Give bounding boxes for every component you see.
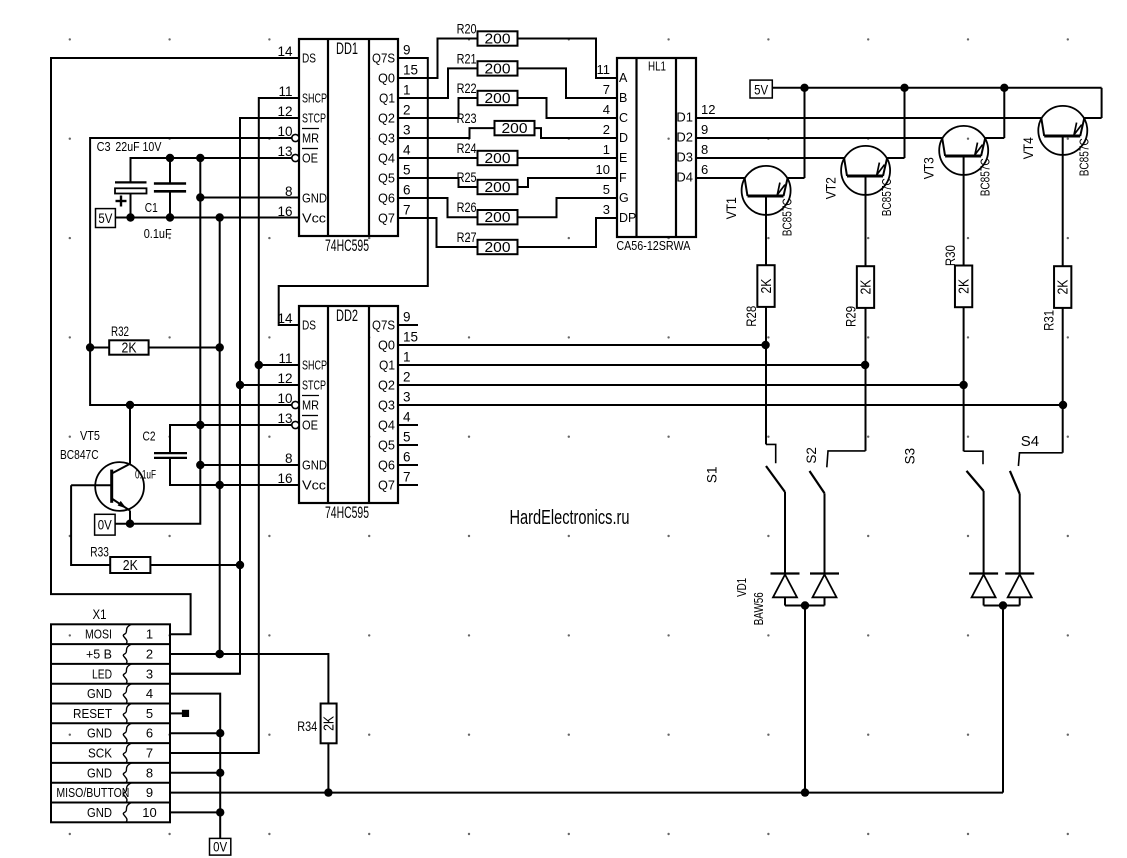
svg-text:8: 8 xyxy=(701,142,708,157)
svg-text:5: 5 xyxy=(603,182,610,197)
svg-text:S3: S3 xyxy=(902,448,917,465)
svg-text:1: 1 xyxy=(603,142,610,157)
svg-text:200: 200 xyxy=(485,210,511,226)
svg-text:SHCP: SHCP xyxy=(302,91,327,106)
svg-text:5V: 5V xyxy=(754,82,769,98)
svg-text:GND: GND xyxy=(87,765,112,780)
svg-text:MOSI: MOSI xyxy=(85,627,112,642)
svg-text:Q2: Q2 xyxy=(378,378,395,393)
svg-text:1: 1 xyxy=(403,83,411,98)
svg-text:BC857C: BC857C xyxy=(780,198,795,236)
svg-text:S1: S1 xyxy=(705,467,720,484)
svg-text:2K: 2K xyxy=(122,341,137,357)
svg-text:Q0: Q0 xyxy=(378,71,395,86)
svg-text:HL1: HL1 xyxy=(648,60,666,74)
svg-text:4: 4 xyxy=(603,102,610,117)
svg-text:DP: DP xyxy=(619,211,636,225)
svg-text:VT5: VT5 xyxy=(80,428,100,443)
svg-text:R25: R25 xyxy=(457,170,477,185)
svg-text:1: 1 xyxy=(403,350,411,365)
svg-text:CA56-12SRWA: CA56-12SRWA xyxy=(616,238,690,253)
svg-text:11: 11 xyxy=(278,351,292,366)
svg-text:D: D xyxy=(619,131,628,145)
svg-text:Q0: Q0 xyxy=(378,338,395,353)
svg-text:GND: GND xyxy=(302,458,327,473)
svg-text:DD2: DD2 xyxy=(336,307,358,325)
svg-text:74HC595: 74HC595 xyxy=(325,237,369,255)
svg-text:MISO/BUTTON: MISO/BUTTON xyxy=(56,786,129,800)
svg-text:200: 200 xyxy=(502,121,528,137)
svg-text:Q7S: Q7S xyxy=(372,318,395,333)
svg-text:A: A xyxy=(619,71,628,85)
svg-text:BAW56: BAW56 xyxy=(751,592,766,625)
svg-text:3: 3 xyxy=(403,390,411,405)
svg-text:12: 12 xyxy=(277,104,292,119)
svg-text:7: 7 xyxy=(603,82,610,97)
svg-text:R33: R33 xyxy=(90,545,109,560)
svg-text:5V: 5V xyxy=(98,210,113,226)
svg-text:SCK: SCK xyxy=(88,746,112,761)
svg-text:2: 2 xyxy=(603,122,610,137)
svg-text:2K: 2K xyxy=(859,279,875,294)
svg-text:R27: R27 xyxy=(457,230,477,245)
svg-text:OE: OE xyxy=(302,418,318,433)
svg-text:200: 200 xyxy=(485,32,511,48)
svg-text:6: 6 xyxy=(403,450,411,465)
svg-text:10: 10 xyxy=(142,805,156,820)
svg-text:DS: DS xyxy=(302,51,316,66)
svg-text:2K: 2K xyxy=(759,278,775,293)
svg-text:C2: C2 xyxy=(143,429,156,444)
svg-text:200: 200 xyxy=(485,61,511,77)
svg-text:BC857C: BC857C xyxy=(1076,138,1091,176)
svg-text:5: 5 xyxy=(403,430,411,445)
svg-text:X1: X1 xyxy=(93,607,107,622)
svg-text:GND: GND xyxy=(87,686,112,701)
svg-text:Q3: Q3 xyxy=(378,398,395,413)
svg-text:10: 10 xyxy=(277,124,292,139)
svg-text:200: 200 xyxy=(485,91,511,107)
svg-text:3: 3 xyxy=(403,123,411,138)
svg-text:C3: C3 xyxy=(97,139,111,154)
svg-text:R34: R34 xyxy=(297,719,317,734)
svg-text:13: 13 xyxy=(277,411,292,426)
svg-text:R24: R24 xyxy=(457,141,477,156)
svg-text:R31: R31 xyxy=(1042,310,1057,331)
svg-text:DD1: DD1 xyxy=(336,40,358,58)
svg-text:+5 B: +5 B xyxy=(86,647,112,662)
svg-text:R32: R32 xyxy=(111,324,129,339)
svg-text:74HC595: 74HC595 xyxy=(325,504,369,522)
svg-text:6: 6 xyxy=(701,162,708,177)
svg-text:3: 3 xyxy=(603,202,610,217)
svg-text:0.1uF: 0.1uF xyxy=(144,226,172,241)
svg-text:R22: R22 xyxy=(457,81,477,96)
svg-text:6: 6 xyxy=(146,726,153,741)
svg-text:Q4: Q4 xyxy=(378,418,395,433)
svg-text:2: 2 xyxy=(146,647,153,662)
svg-text:Q7S: Q7S xyxy=(372,51,395,66)
svg-text:R20: R20 xyxy=(457,22,477,37)
svg-text:R21: R21 xyxy=(457,51,477,66)
svg-text:GND: GND xyxy=(87,726,112,741)
svg-text:11: 11 xyxy=(278,84,292,99)
svg-text:F: F xyxy=(619,171,627,185)
svg-text:VD1: VD1 xyxy=(734,578,749,597)
svg-text:12: 12 xyxy=(701,102,715,117)
svg-text:4: 4 xyxy=(403,143,411,158)
svg-text:9: 9 xyxy=(701,122,708,137)
svg-text:11: 11 xyxy=(597,62,611,77)
svg-text:Q4: Q4 xyxy=(378,151,395,166)
svg-text:200: 200 xyxy=(485,240,511,256)
svg-text:8: 8 xyxy=(285,451,293,466)
svg-text:2K: 2K xyxy=(322,716,338,731)
svg-text:12: 12 xyxy=(277,371,292,386)
svg-text:MR: MR xyxy=(302,398,319,413)
svg-text:E: E xyxy=(619,151,627,165)
svg-text:2: 2 xyxy=(403,370,411,385)
svg-text:Q7: Q7 xyxy=(378,478,395,493)
svg-text:1: 1 xyxy=(146,627,153,642)
svg-text:SHCP: SHCP xyxy=(302,358,327,373)
svg-text:VT3: VT3 xyxy=(922,157,937,179)
svg-text:7: 7 xyxy=(146,746,153,761)
svg-text:2: 2 xyxy=(403,103,411,118)
svg-text:22uF 10V: 22uF 10V xyxy=(115,139,161,154)
svg-text:Q1: Q1 xyxy=(379,358,395,373)
svg-text:OE: OE xyxy=(302,151,318,166)
svg-text:14: 14 xyxy=(277,311,293,326)
svg-text:R23: R23 xyxy=(457,111,477,126)
svg-text:S2: S2 xyxy=(804,447,819,464)
svg-text:MR: MR xyxy=(302,131,319,146)
svg-text:VT1: VT1 xyxy=(724,197,739,219)
svg-text:6: 6 xyxy=(403,183,411,198)
svg-text:R30: R30 xyxy=(943,245,958,266)
svg-text:BC857C: BC857C xyxy=(977,158,992,196)
svg-text:STCP: STCP xyxy=(302,111,326,126)
svg-text:D3: D3 xyxy=(676,150,693,165)
svg-text:8: 8 xyxy=(146,765,153,780)
svg-text:B: B xyxy=(619,91,627,105)
svg-text:RESET: RESET xyxy=(73,706,112,721)
svg-text:R26: R26 xyxy=(457,200,477,215)
svg-text:G: G xyxy=(619,191,629,205)
svg-text:13: 13 xyxy=(277,144,292,159)
svg-text:Q1: Q1 xyxy=(379,91,395,106)
svg-text:VT4: VT4 xyxy=(1021,137,1036,159)
svg-text:2K: 2K xyxy=(1056,279,1072,294)
svg-text:Q5: Q5 xyxy=(378,438,395,453)
svg-text:LED: LED xyxy=(92,666,112,681)
svg-text:0V: 0V xyxy=(213,838,228,854)
svg-text:BC857C: BC857C xyxy=(879,178,894,216)
svg-text:STCP: STCP xyxy=(302,378,326,393)
svg-text:Vcc: Vcc xyxy=(302,478,327,493)
svg-text:2K: 2K xyxy=(123,558,138,574)
svg-text:C: C xyxy=(619,111,628,125)
svg-text:HardElectronics.ru: HardElectronics.ru xyxy=(510,506,630,529)
svg-text:Q3: Q3 xyxy=(378,131,395,146)
svg-text:10: 10 xyxy=(596,162,610,177)
svg-text:Vcc: Vcc xyxy=(302,211,327,226)
svg-text:Q7: Q7 xyxy=(378,211,395,226)
svg-text:200: 200 xyxy=(485,180,511,196)
svg-text:VT2: VT2 xyxy=(824,177,839,199)
svg-text:Q2: Q2 xyxy=(378,111,395,126)
svg-text:5: 5 xyxy=(146,706,153,721)
svg-text:9: 9 xyxy=(403,310,411,325)
svg-text:2K: 2K xyxy=(957,279,973,294)
svg-text:BC847C: BC847C xyxy=(60,447,99,462)
svg-text:7: 7 xyxy=(403,470,411,485)
svg-text:GND: GND xyxy=(87,805,112,820)
svg-text:5: 5 xyxy=(403,163,411,178)
svg-text:C1: C1 xyxy=(145,200,158,215)
svg-text:GND: GND xyxy=(302,191,327,206)
svg-text:4: 4 xyxy=(403,410,411,425)
svg-text:S4: S4 xyxy=(1021,433,1039,450)
svg-text:Q6: Q6 xyxy=(378,458,395,473)
svg-text:D1: D1 xyxy=(676,110,693,125)
svg-text:15: 15 xyxy=(403,330,418,345)
svg-text:9: 9 xyxy=(146,785,153,800)
svg-text:0V: 0V xyxy=(98,517,113,533)
svg-text:R29: R29 xyxy=(844,306,859,327)
svg-text:10: 10 xyxy=(277,391,292,406)
svg-text:DS: DS xyxy=(302,318,316,333)
svg-text:15: 15 xyxy=(403,63,418,78)
svg-text:9: 9 xyxy=(403,43,411,58)
svg-text:D4: D4 xyxy=(676,170,693,185)
svg-text:7: 7 xyxy=(403,203,411,218)
svg-text:R28: R28 xyxy=(744,306,759,327)
svg-text:200: 200 xyxy=(485,151,511,167)
svg-text:4: 4 xyxy=(146,686,153,701)
svg-text:Q5: Q5 xyxy=(378,171,395,186)
svg-text:3: 3 xyxy=(146,666,153,681)
svg-text:D2: D2 xyxy=(676,130,693,145)
svg-text:14: 14 xyxy=(277,44,293,59)
svg-text:Q6: Q6 xyxy=(378,191,395,206)
svg-text:16: 16 xyxy=(277,471,292,486)
